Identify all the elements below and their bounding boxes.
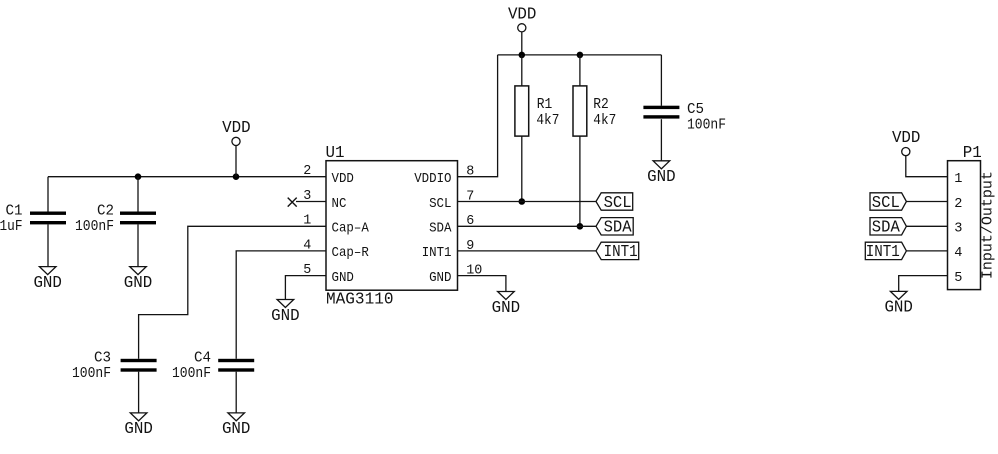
svg-text:SDA: SDA bbox=[872, 219, 900, 237]
power flag VDD left bbox=[222, 119, 251, 145]
svg-text:C5: C5 bbox=[687, 102, 704, 118]
svg-text:Cap–R: Cap–R bbox=[332, 246, 369, 261]
svg-text:GND: GND bbox=[33, 274, 62, 292]
svg-text:Input/Output: Input/Output bbox=[980, 171, 997, 279]
svg-text:U1: U1 bbox=[326, 144, 345, 162]
svg-text:C4: C4 bbox=[194, 351, 211, 367]
capacitor C5 plates bbox=[643, 106, 679, 119]
wire INT1 net bbox=[458, 250, 597, 252]
global label SCL (left-pointing) bbox=[596, 193, 633, 212]
svg-text:P1: P1 bbox=[963, 144, 982, 162]
ground C5 bbox=[647, 161, 676, 186]
wire pin8 to top rail bbox=[458, 55, 498, 177]
svg-text:GND: GND bbox=[429, 271, 451, 286]
svg-text:5: 5 bbox=[303, 263, 311, 278]
svg-text:C1: C1 bbox=[6, 203, 23, 219]
svg-text:4k7: 4k7 bbox=[593, 113, 616, 129]
power flag VDD P1 bbox=[892, 129, 921, 156]
svg-text:VDD: VDD bbox=[892, 129, 921, 147]
svg-text:INT1: INT1 bbox=[866, 243, 900, 261]
svg-text:VDDIO: VDDIO bbox=[414, 172, 451, 187]
svg-text:GND: GND bbox=[884, 299, 913, 317]
svg-text:5: 5 bbox=[954, 271, 962, 286]
svg-text:GND: GND bbox=[222, 420, 251, 438]
wire C4 bottom to ground bbox=[235, 372, 237, 413]
wire C2 top drop bbox=[137, 177, 139, 212]
connector P1 body bbox=[948, 144, 982, 289]
svg-text:GND: GND bbox=[124, 274, 153, 292]
svg-text:4: 4 bbox=[954, 246, 962, 261]
global label SDA (right-pointing) bbox=[870, 218, 906, 237]
svg-text:4: 4 bbox=[303, 238, 311, 253]
svg-text:4k7: 4k7 bbox=[536, 113, 559, 129]
svg-text:VDD: VDD bbox=[332, 172, 354, 187]
svg-text:9: 9 bbox=[466, 239, 474, 254]
svg-text:100nF: 100nF bbox=[687, 118, 726, 134]
wire pin1 to C3 bbox=[139, 226, 326, 358]
wire R1 bottom lead bbox=[521, 136, 523, 201]
wire VDD top drop bbox=[521, 32, 523, 55]
junction bbox=[519, 52, 526, 59]
capacitor C5 bbox=[643, 55, 726, 161]
ground C2 bbox=[124, 267, 153, 292]
P1 pin numbers bbox=[954, 172, 962, 286]
wire P1 pin2 wire bbox=[906, 201, 947, 203]
svg-text:1: 1 bbox=[303, 214, 311, 229]
wire C3 bottom to ground bbox=[138, 372, 140, 413]
junction bbox=[577, 52, 584, 59]
svg-text:VDD: VDD bbox=[222, 119, 251, 137]
capacitor C3 plates bbox=[121, 359, 157, 372]
global label SDA (left-pointing) bbox=[596, 218, 633, 237]
wire pin5 to ground bbox=[285, 276, 326, 300]
junction bbox=[519, 198, 526, 205]
U1 left pin numbers bbox=[303, 164, 311, 278]
wire C5 top lead bbox=[660, 55, 662, 106]
capacitor C4 plates bbox=[218, 359, 254, 372]
wire C5 bottom lead bbox=[660, 119, 662, 161]
resistor R2 bbox=[573, 55, 616, 226]
svg-text:2: 2 bbox=[303, 164, 311, 179]
svg-text:SCL: SCL bbox=[872, 194, 900, 212]
wire VDD rail left bbox=[48, 176, 326, 178]
power flag VDD top bbox=[508, 5, 537, 31]
svg-text:R1: R1 bbox=[537, 97, 553, 113]
U1 left pin names bbox=[332, 172, 370, 286]
ground U1 pin10 bbox=[492, 292, 521, 317]
wire SCL net bbox=[458, 201, 597, 203]
svg-text:GND: GND bbox=[124, 420, 153, 438]
wire VDD stub left bbox=[235, 145, 237, 176]
svg-text:VDD: VDD bbox=[508, 5, 537, 23]
junction bbox=[577, 223, 584, 230]
wire P1 pin3 wire bbox=[906, 225, 947, 227]
U1 right pin names bbox=[414, 172, 452, 286]
svg-text:GND: GND bbox=[647, 168, 676, 186]
svg-text:SCL: SCL bbox=[429, 197, 451, 212]
wire top rail bbox=[498, 54, 662, 56]
svg-text:100nF: 100nF bbox=[75, 219, 114, 235]
junction bbox=[135, 173, 142, 180]
wire R1 top lead bbox=[521, 55, 523, 86]
svg-text:NC: NC bbox=[332, 197, 347, 212]
svg-text:C2: C2 bbox=[97, 203, 114, 219]
wire SDA net bbox=[458, 225, 597, 227]
svg-text:GND: GND bbox=[492, 299, 521, 317]
svg-text:100nF: 100nF bbox=[72, 366, 111, 382]
svg-text:1: 1 bbox=[954, 172, 962, 187]
global label INT1 (right-pointing) bbox=[865, 242, 906, 261]
ground P1 pin5 bbox=[884, 291, 913, 316]
global label SCL (right-pointing) bbox=[870, 193, 906, 212]
wire C1 top drop bbox=[47, 177, 49, 212]
svg-text:GND: GND bbox=[332, 271, 354, 286]
capacitor C1 plates bbox=[30, 212, 66, 225]
svg-text:3: 3 bbox=[954, 222, 962, 237]
op IC U1 MAG3110 body bbox=[326, 144, 458, 308]
wire C2 bottom to ground bbox=[137, 225, 139, 267]
wire P1 pin5 to ground bbox=[899, 276, 948, 292]
svg-text:8: 8 bbox=[466, 165, 474, 180]
ground C4 bbox=[222, 413, 251, 438]
svg-text:SDA: SDA bbox=[429, 222, 452, 237]
wire R2 top lead bbox=[579, 55, 581, 86]
svg-text:100nF: 100nF bbox=[172, 366, 211, 382]
wire pin10 to ground bbox=[458, 276, 506, 292]
svg-text:1uF: 1uF bbox=[0, 219, 23, 235]
resistor R1 bbox=[515, 55, 560, 202]
wire P1 pin1 from VDD bbox=[906, 155, 948, 176]
wire R2 bottom lead bbox=[579, 136, 581, 226]
svg-text:MAG3110: MAG3110 bbox=[326, 291, 394, 309]
junction bbox=[233, 173, 240, 180]
wire pin4 to C4 bbox=[236, 251, 326, 359]
svg-text:C3: C3 bbox=[94, 351, 111, 367]
svg-text:SCL: SCL bbox=[604, 194, 632, 212]
ground C3 bbox=[124, 413, 153, 438]
wire C1 bottom to ground bbox=[47, 225, 49, 267]
ground C1 bbox=[33, 267, 62, 292]
capacitor C2 plates bbox=[120, 212, 156, 225]
global label INT1 (left-pointing) bbox=[596, 242, 639, 261]
svg-text:2: 2 bbox=[954, 197, 962, 212]
wire NC stub bbox=[296, 201, 326, 203]
svg-text:R2: R2 bbox=[593, 97, 609, 113]
svg-text:GND: GND bbox=[271, 307, 300, 325]
wire P1 pin4 wire bbox=[906, 250, 947, 252]
ground U1 pin5 bbox=[271, 300, 300, 325]
svg-text:Cap–A: Cap–A bbox=[332, 222, 370, 237]
svg-text:SDA: SDA bbox=[604, 219, 632, 237]
svg-text:INT1: INT1 bbox=[422, 246, 452, 261]
U1 right pin numbers bbox=[466, 165, 482, 279]
svg-text:INT1: INT1 bbox=[604, 243, 638, 261]
